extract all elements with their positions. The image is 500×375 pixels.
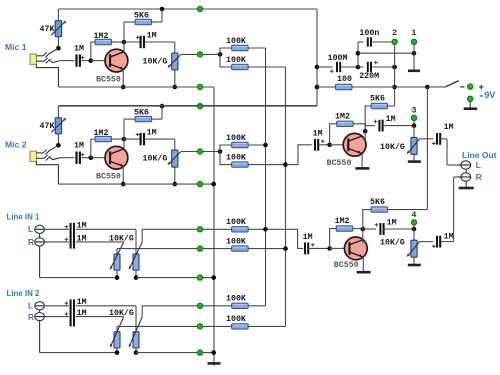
svg-text:BC550: BC550: [334, 261, 359, 270]
svg-text:100: 100: [337, 75, 352, 84]
svg-text:100M: 100M: [328, 54, 348, 63]
svg-text:9V: 9V: [484, 90, 496, 100]
svg-text:1M2: 1M2: [335, 112, 350, 121]
svg-text:Mic 1: Mic 1: [5, 42, 27, 52]
svg-text:R: R: [28, 312, 34, 322]
svg-text:10K/G: 10K/G: [109, 234, 134, 244]
svg-text:100K: 100K: [226, 37, 246, 46]
svg-text:1M2: 1M2: [94, 129, 109, 138]
svg-text:L: L: [28, 301, 33, 311]
svg-text:1M: 1M: [147, 32, 157, 41]
svg-text:100K: 100K: [226, 315, 246, 324]
svg-text:1M: 1M: [386, 115, 396, 124]
svg-text:47K: 47K: [40, 122, 55, 131]
svg-text:10K/G: 10K/G: [380, 142, 405, 152]
svg-text:1M: 1M: [74, 44, 84, 53]
svg-text:220M: 220M: [359, 72, 379, 81]
svg-text:BC550: BC550: [96, 173, 121, 182]
svg-text:5K6: 5K6: [370, 198, 385, 207]
svg-text:-: -: [479, 92, 484, 102]
svg-text:10K/G: 10K/G: [109, 308, 134, 318]
svg-text:R: R: [28, 237, 34, 247]
svg-text:100K: 100K: [226, 237, 246, 246]
svg-text:1M: 1M: [313, 129, 323, 138]
svg-text:L: L: [476, 160, 481, 170]
svg-text:1M: 1M: [444, 232, 454, 241]
svg-text:L: L: [28, 224, 33, 234]
svg-text:100n: 100n: [359, 29, 379, 38]
svg-text:5K6: 5K6: [134, 12, 149, 21]
svg-text:10K/G: 10K/G: [143, 57, 168, 67]
svg-text:47K: 47K: [40, 25, 55, 34]
svg-text:1M2: 1M2: [335, 217, 350, 226]
svg-text:5K6: 5K6: [370, 95, 385, 104]
svg-text:1M: 1M: [444, 123, 454, 132]
svg-text:100K: 100K: [226, 56, 246, 65]
svg-text:100K: 100K: [226, 153, 246, 162]
svg-text:100K: 100K: [226, 295, 246, 304]
svg-text:1M2: 1M2: [94, 32, 109, 41]
svg-text:100K: 100K: [226, 134, 246, 143]
svg-text:2: 2: [392, 28, 397, 38]
svg-text:Line IN 2: Line IN 2: [7, 289, 40, 298]
svg-text:Mic 2: Mic 2: [5, 139, 27, 149]
svg-text:1M: 1M: [387, 219, 397, 228]
svg-text:10K/G: 10K/G: [380, 238, 405, 248]
svg-text:10K/G: 10K/G: [143, 154, 168, 164]
svg-text:4: 4: [411, 210, 416, 220]
svg-text:5K6: 5K6: [134, 109, 149, 118]
svg-text:Line Out: Line Out: [462, 150, 497, 160]
svg-text:1: 1: [411, 28, 416, 38]
svg-text:R: R: [476, 172, 483, 182]
svg-text:Line IN 1: Line IN 1: [7, 213, 40, 222]
svg-text:1M: 1M: [147, 129, 157, 138]
svg-text:100K: 100K: [226, 218, 246, 227]
svg-text:1M: 1M: [303, 233, 313, 242]
svg-text:3: 3: [411, 105, 416, 115]
svg-text:BC550: BC550: [327, 159, 352, 168]
svg-text:1M: 1M: [74, 142, 84, 151]
svg-text:BC550: BC550: [96, 76, 121, 85]
